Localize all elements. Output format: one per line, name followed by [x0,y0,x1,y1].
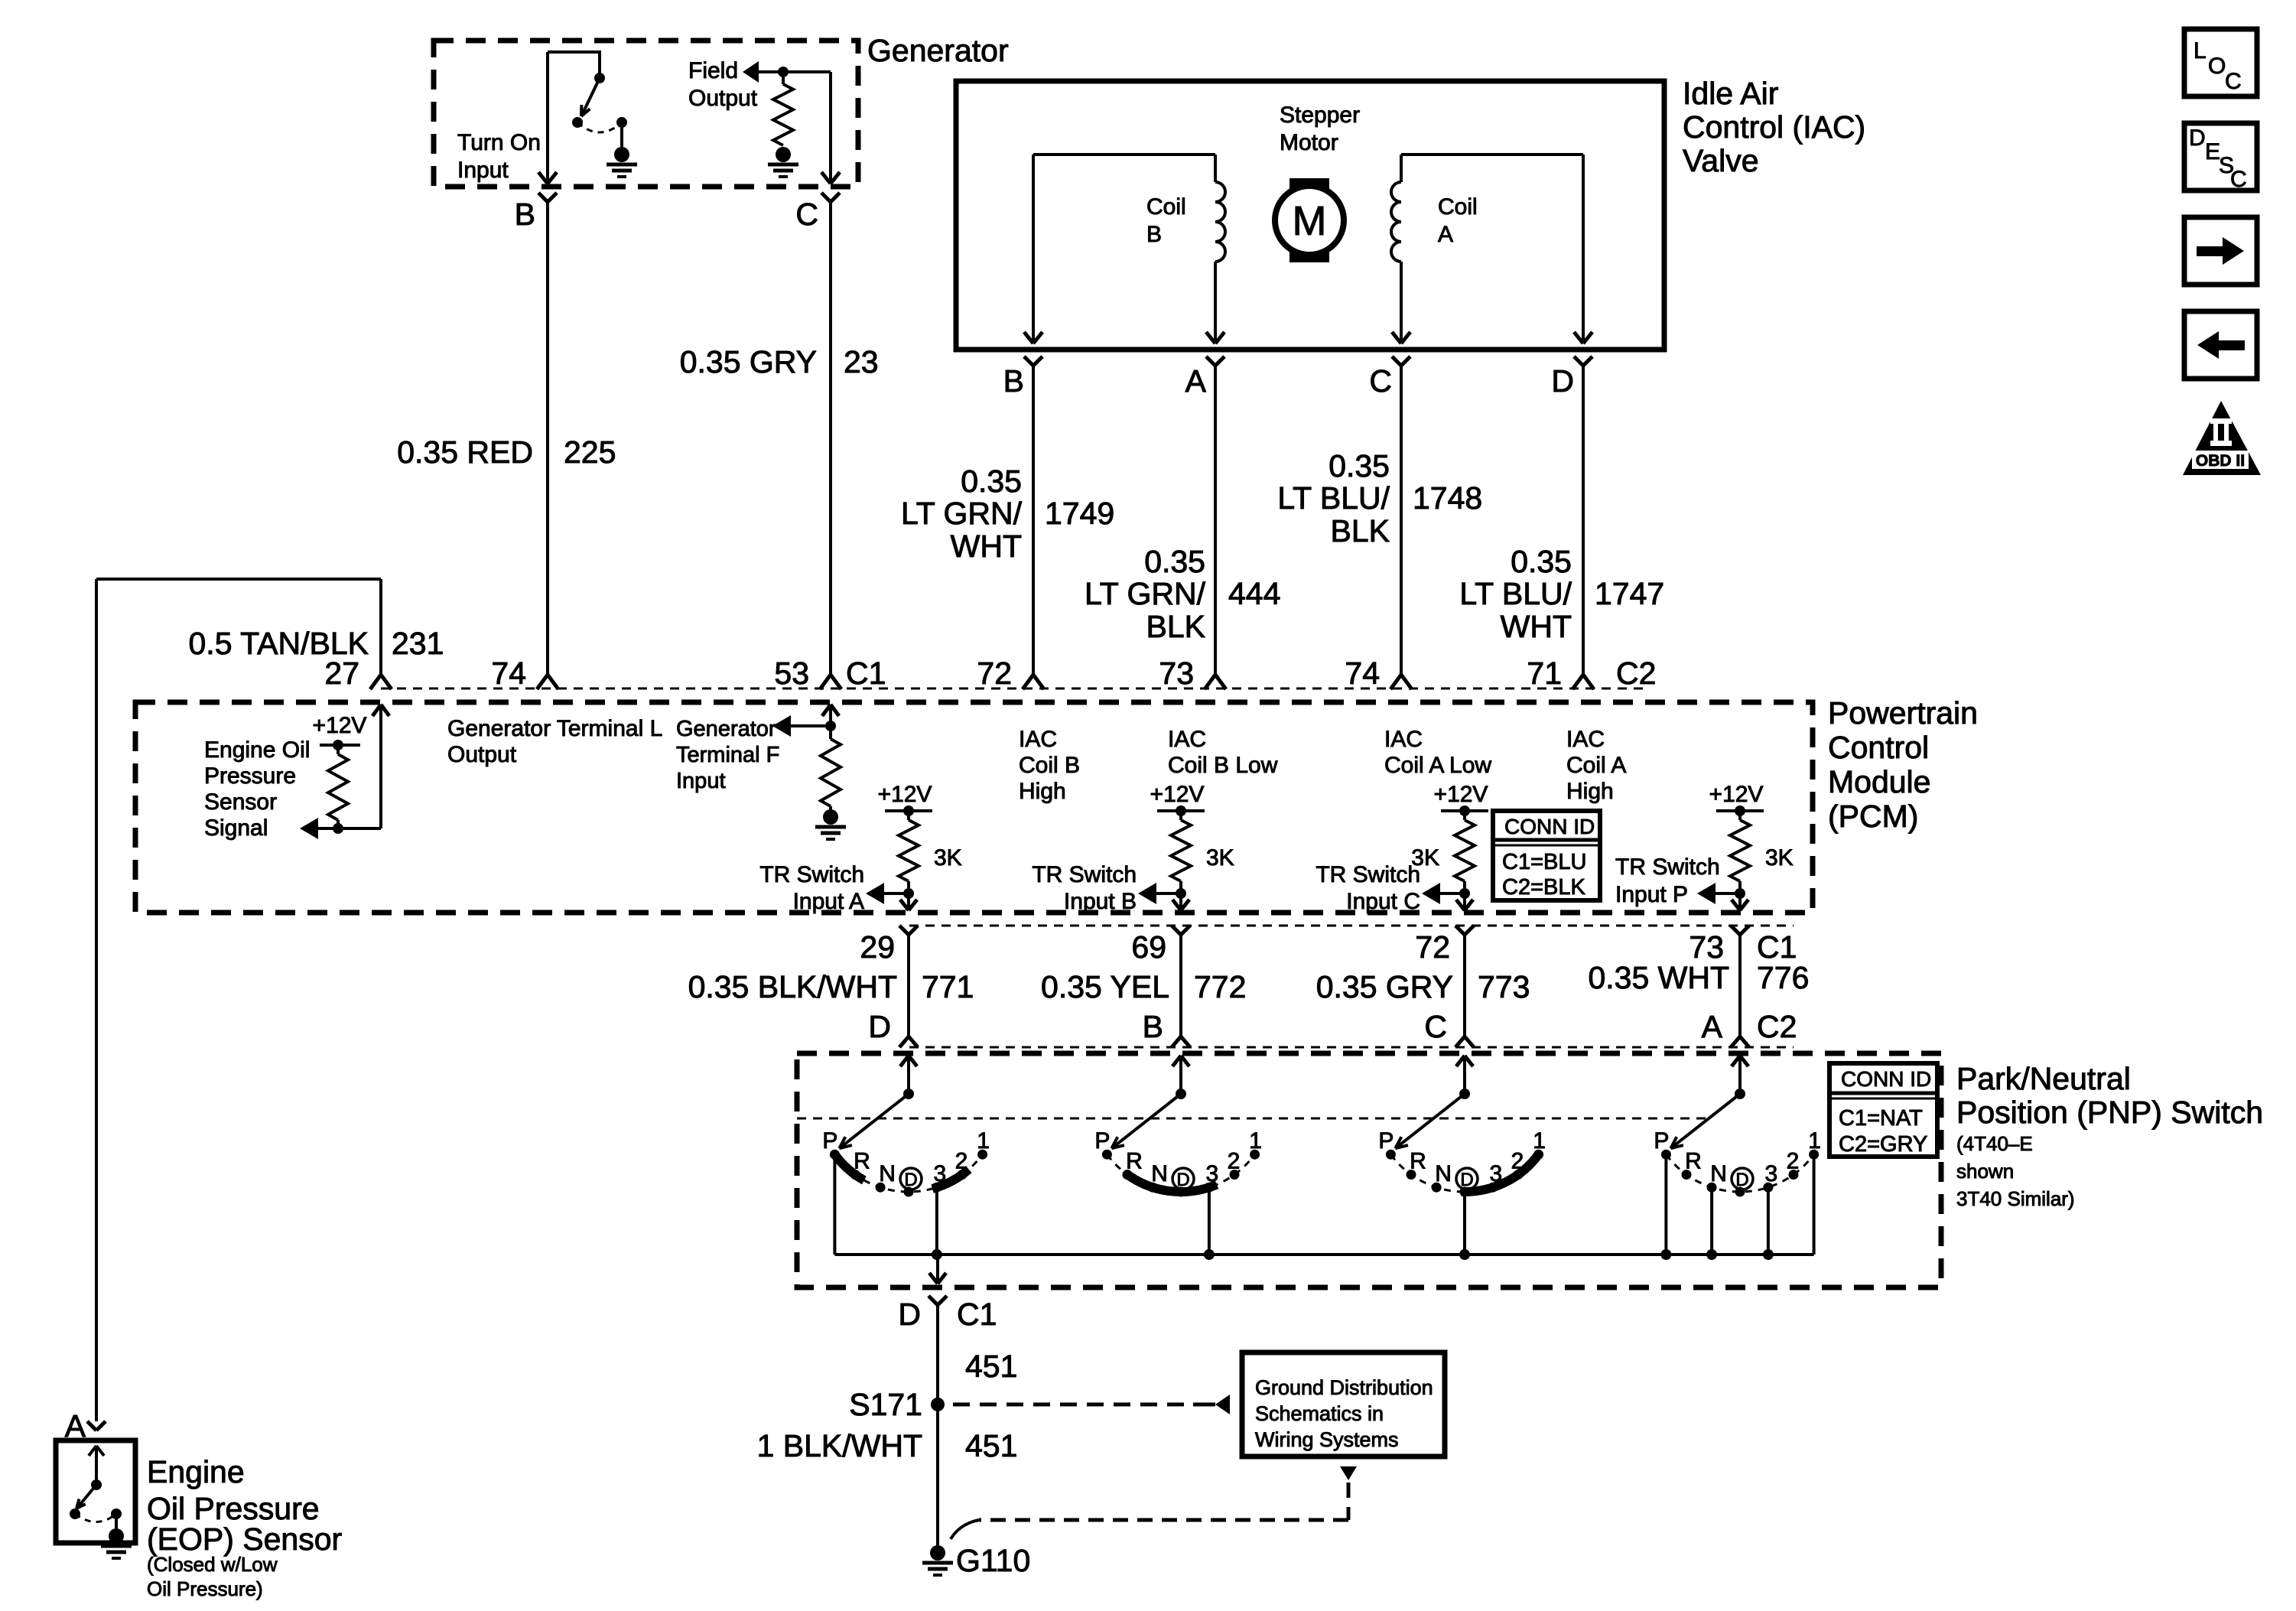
svg-text:0.35 YEL: 0.35 YEL [1041,969,1169,1004]
svg-text:+12V: +12V [878,782,932,807]
svg-text:225: 225 [564,434,616,470]
svg-text:Coil B Low: Coil B Low [1168,753,1278,778]
svg-text:1747: 1747 [1595,576,1664,611]
svg-text:Wiring Systems: Wiring Systems [1255,1428,1399,1451]
svg-text:IAC: IAC [1566,727,1605,752]
svg-text:3T40 Similar): 3T40 Similar) [1956,1187,2075,1210]
svg-text:L: L [2194,38,2207,63]
svg-text:0.35: 0.35 [1328,448,1390,483]
svg-text:Output: Output [447,742,517,767]
svg-text:C: C [2230,167,2247,192]
svg-text:+12V: +12V [1434,782,1488,807]
svg-text:Engine: Engine [147,1454,245,1489]
svg-text:776: 776 [1757,960,1809,995]
svg-text:Generator Terminal L: Generator Terminal L [447,716,662,741]
svg-text:IAC: IAC [1168,727,1206,752]
svg-text:M: M [1293,198,1327,244]
svg-text:C1=NAT: C1=NAT [1839,1106,1923,1131]
svg-text:Motor: Motor [1280,130,1338,155]
svg-text:3K: 3K [934,845,962,871]
svg-text:29: 29 [860,929,895,965]
svg-text:TR Switch: TR Switch [1615,854,1720,880]
svg-text:C2: C2 [1757,1009,1797,1044]
svg-text:R: R [1685,1148,1702,1173]
svg-text:773: 773 [1478,969,1530,1004]
svg-text:P: P [822,1128,837,1154]
svg-text:0.35: 0.35 [961,464,1022,499]
svg-text:0.35 GRY: 0.35 GRY [1316,969,1453,1004]
svg-text:Control (IAC): Control (IAC) [1683,109,1865,145]
svg-text:Powertrain: Powertrain [1828,695,1978,731]
svg-text:C: C [795,197,818,232]
svg-text:0.35 BLK/WHT: 0.35 BLK/WHT [688,969,897,1004]
svg-text:IAC: IAC [1384,727,1423,752]
svg-text:Stepper: Stepper [1280,103,1360,128]
svg-text:B: B [1143,1009,1163,1044]
svg-text:(4T40–E: (4T40–E [1956,1132,2033,1155]
svg-text:0.35 WHT: 0.35 WHT [1588,960,1729,995]
svg-text:Terminal F: Terminal F [676,743,779,767]
svg-text:C: C [1369,363,1392,399]
svg-text:P: P [1654,1128,1669,1154]
svg-text:Output: Output [688,86,758,111]
svg-text:Schematics in: Schematics in [1255,1402,1384,1425]
svg-text:S171: S171 [849,1387,922,1422]
svg-text:C1: C1 [957,1297,997,1332]
svg-text:A: A [1702,1009,1723,1044]
svg-text:Coil: Coil [1438,194,1478,220]
svg-text:0.35 RED: 0.35 RED [397,434,533,470]
svg-text:C2=GRY: C2=GRY [1839,1132,1927,1157]
svg-text:73: 73 [1159,656,1194,691]
svg-text:23: 23 [844,344,879,379]
svg-text:Sensor: Sensor [204,789,277,815]
svg-text:High: High [1019,779,1066,804]
svg-text:O: O [2208,54,2226,79]
svg-text:(Closed w/Low: (Closed w/Low [147,1553,278,1576]
svg-text:TR Switch: TR Switch [1315,862,1420,887]
svg-text:C2: C2 [1616,656,1656,691]
svg-text:CONN ID: CONN ID [1504,815,1595,838]
svg-text:(PCM): (PCM) [1828,799,1918,834]
svg-text:E: E [2205,139,2220,164]
svg-text:Position (PNP) Switch: Position (PNP) Switch [1956,1095,2263,1130]
svg-text:Generator: Generator [676,717,776,741]
svg-text:Park/Neutral: Park/Neutral [1956,1061,2131,1096]
svg-text:N: N [879,1161,896,1186]
svg-text:1: 1 [977,1128,990,1154]
svg-text:N: N [1435,1161,1452,1186]
svg-text:+12V: +12V [1709,782,1764,807]
svg-text:A: A [1438,222,1453,247]
svg-text:Field: Field [688,58,738,83]
svg-text:Coil A Low: Coil A Low [1384,753,1491,778]
svg-text:C1=BLU: C1=BLU [1502,850,1586,874]
svg-text:Input B: Input B [1064,889,1137,914]
svg-text:Idle Air: Idle Air [1683,76,1778,111]
svg-text:D: D [1735,1170,1748,1190]
svg-text:High: High [1566,779,1614,804]
svg-text:Module: Module [1828,764,1930,799]
svg-text:D: D [898,1297,921,1332]
svg-text:D: D [868,1009,891,1044]
svg-text:D: D [1551,363,1574,399]
svg-text:451: 451 [965,1428,1017,1463]
svg-text:Generator: Generator [867,33,1009,68]
svg-text:Coil B: Coil B [1019,753,1080,778]
svg-text:LT BLU/: LT BLU/ [1277,480,1390,516]
svg-text:451: 451 [965,1349,1017,1384]
svg-text:1 BLK/WHT: 1 BLK/WHT [757,1428,922,1463]
svg-text:69: 69 [1131,929,1166,965]
svg-text:Turn On: Turn On [457,130,541,155]
svg-text:72: 72 [1415,929,1450,965]
svg-text:+12V: +12V [1150,782,1205,807]
svg-text:Control: Control [1828,730,1929,765]
svg-text:B: B [1146,222,1162,247]
svg-text:0.35 GRY: 0.35 GRY [680,344,817,379]
svg-text:OBD II: OBD II [2196,452,2245,470]
svg-text:Valve: Valve [1683,143,1759,178]
svg-text:Coil: Coil [1146,194,1186,220]
svg-text:G110: G110 [956,1543,1030,1578]
svg-text:WHT: WHT [1501,609,1572,644]
svg-text:0.35: 0.35 [1511,544,1572,579]
svg-text:P: P [1094,1128,1110,1154]
svg-text:LT BLU/: LT BLU/ [1459,576,1572,611]
svg-text:BLK: BLK [1146,609,1206,644]
svg-text:shown: shown [1956,1160,2014,1183]
svg-text:772: 772 [1194,969,1246,1004]
svg-text:N: N [1710,1161,1727,1186]
svg-text:53: 53 [774,656,809,691]
svg-text:Input: Input [457,158,509,183]
svg-text:3: 3 [1765,1161,1778,1186]
svg-text:231: 231 [392,626,444,661]
svg-text:N: N [1151,1161,1168,1186]
svg-text:0.35: 0.35 [1144,544,1205,579]
svg-text:CONN ID: CONN ID [1841,1067,1931,1091]
svg-text:B: B [515,197,535,232]
svg-text:1: 1 [1249,1128,1262,1154]
svg-text:TR Switch: TR Switch [1032,862,1137,887]
svg-text:771: 771 [922,969,974,1004]
svg-text:Coil A: Coil A [1566,753,1626,778]
svg-text:TR Switch: TR Switch [759,862,864,887]
svg-text:1: 1 [1533,1128,1546,1154]
svg-text:R: R [1410,1148,1426,1173]
svg-text:27: 27 [324,656,359,691]
svg-text:Pressure: Pressure [204,763,296,789]
svg-text:Input: Input [676,769,726,793]
svg-text:Input P: Input P [1615,882,1688,907]
svg-text:B: B [1003,363,1024,399]
svg-text:Signal: Signal [204,815,268,841]
svg-text:IAC: IAC [1019,727,1057,752]
svg-text:BLK: BLK [1331,513,1390,548]
svg-text:A: A [1185,363,1207,399]
svg-text:2: 2 [1787,1148,1800,1173]
svg-text:WHT: WHT [951,529,1022,564]
svg-text:1: 1 [1808,1128,1821,1154]
svg-text:Oil Pressure): Oil Pressure) [147,1577,263,1600]
svg-text:1748: 1748 [1413,480,1482,516]
svg-text:3K: 3K [1206,845,1234,871]
svg-text:+12V: +12V [313,713,367,738]
svg-text:74: 74 [1345,656,1380,691]
svg-text:C: C [2225,69,2242,94]
svg-text:Input A: Input A [793,889,864,914]
svg-text:74: 74 [491,656,526,691]
svg-text:2: 2 [1228,1148,1241,1173]
svg-text:C1: C1 [846,656,886,691]
svg-text:P: P [1378,1128,1394,1154]
svg-text:71: 71 [1527,656,1562,691]
svg-text:3K: 3K [1765,845,1794,871]
svg-text:C: C [1424,1009,1447,1044]
svg-text:LT GRN/: LT GRN/ [1085,576,1206,611]
svg-text:Ground Distribution: Ground Distribution [1255,1376,1433,1399]
svg-text:(EOP) Sensor: (EOP) Sensor [147,1521,342,1557]
svg-text:Input C: Input C [1346,889,1420,914]
svg-text:1749: 1749 [1045,496,1114,531]
svg-text:D: D [2189,125,2206,151]
svg-text:Engine Oil: Engine Oil [204,737,310,763]
svg-text:444: 444 [1228,576,1280,611]
svg-text:LT GRN/: LT GRN/ [901,496,1023,531]
svg-text:C2=BLK: C2=BLK [1502,875,1585,900]
svg-text:D: D [904,1170,917,1190]
svg-text:72: 72 [977,656,1012,691]
